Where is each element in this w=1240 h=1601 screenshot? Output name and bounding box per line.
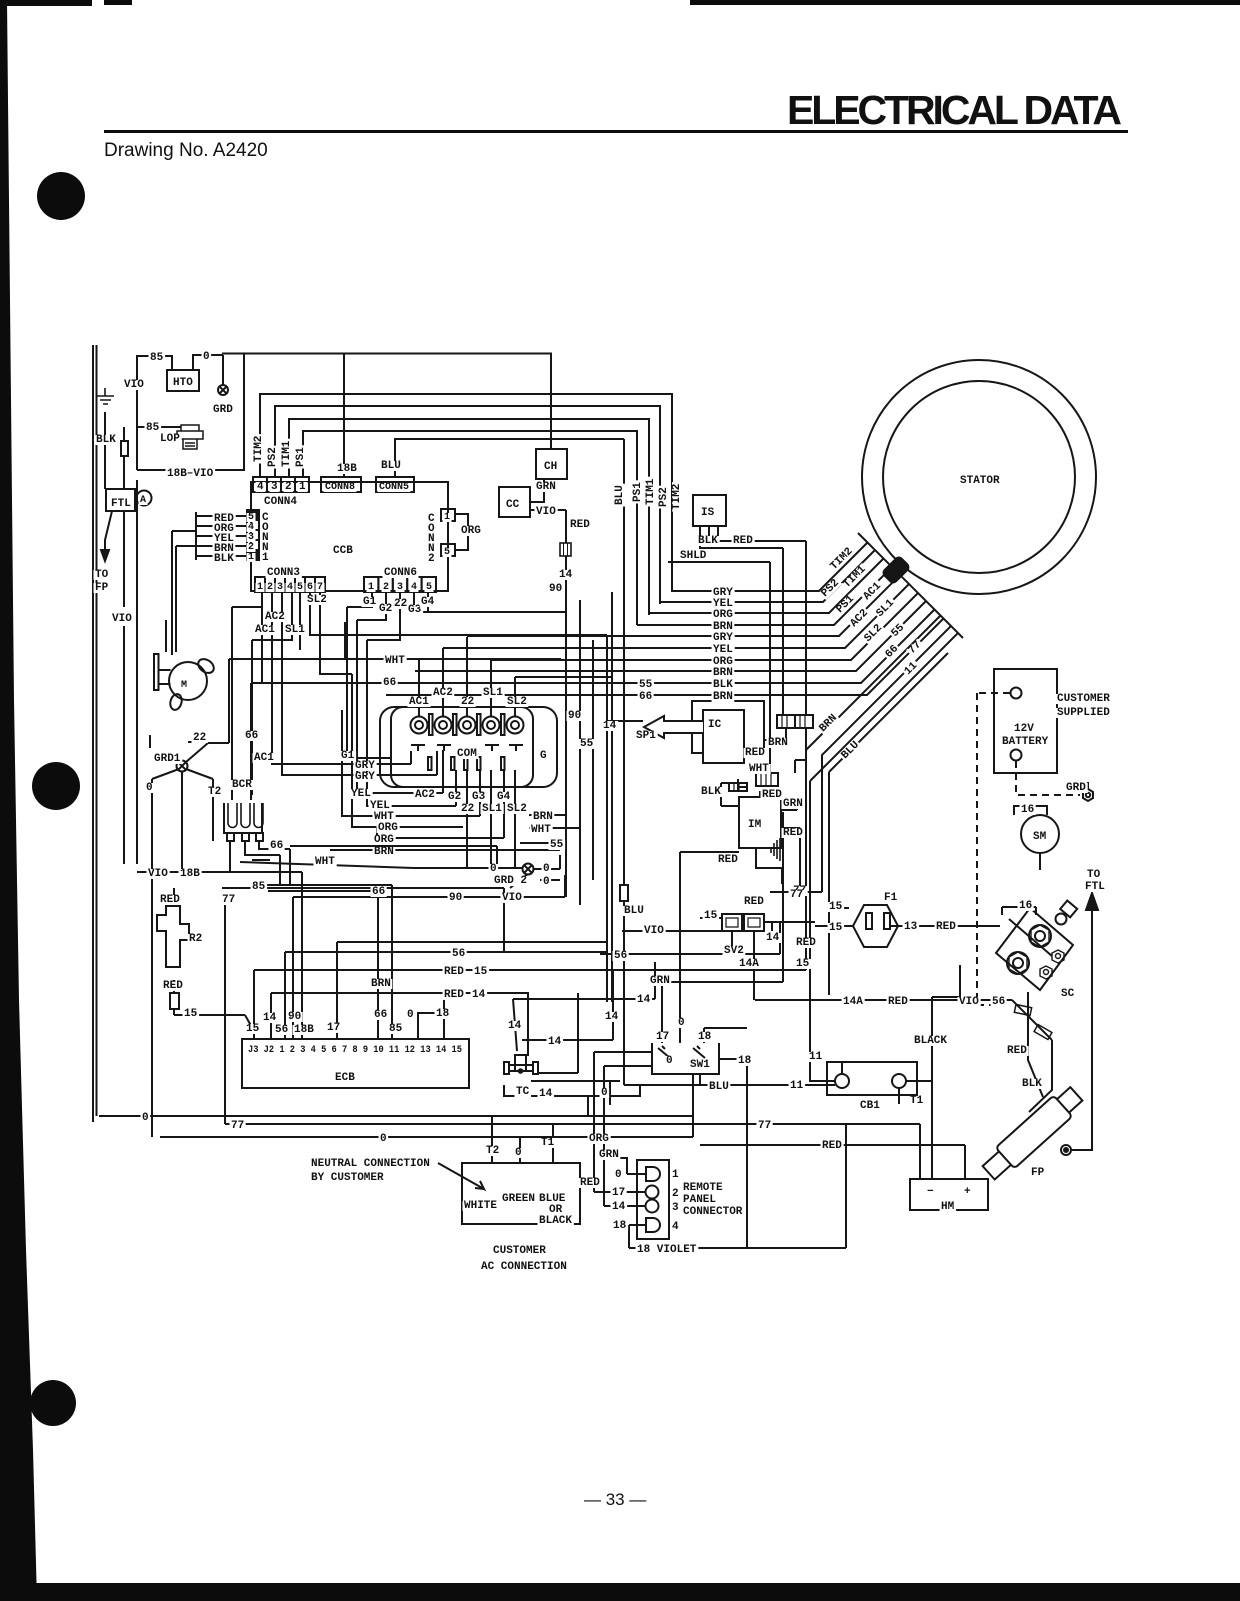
svg-text:GREEN: GREEN <box>502 1193 535 1205</box>
svg-text:5: 5 <box>297 582 303 593</box>
svg-text:3: 3 <box>277 582 283 593</box>
svg-text:16: 16 <box>1021 804 1034 816</box>
svg-text:SC: SC <box>1061 988 1075 1000</box>
svg-text:0: 0 <box>490 863 497 875</box>
svg-text:RED: RED <box>444 966 464 978</box>
svg-text:AC1: AC1 <box>255 624 275 636</box>
svg-text:TIM1: TIM1 <box>645 478 657 505</box>
svg-text:FP: FP <box>1031 1167 1045 1179</box>
svg-text:2: 2 <box>267 582 273 593</box>
svg-text:90: 90 <box>449 892 462 904</box>
svg-text:4: 4 <box>411 582 417 593</box>
svg-text:NEUTRAL CONNECTION: NEUTRAL CONNECTION <box>311 1158 430 1170</box>
svg-text:STATOR: STATOR <box>960 475 1000 487</box>
svg-text:VIO: VIO <box>148 868 168 880</box>
svg-text:22: 22 <box>461 696 474 708</box>
svg-text:1: 1 <box>257 582 263 593</box>
svg-text:14: 14 <box>548 1036 562 1048</box>
svg-text:CONN8: CONN8 <box>325 482 355 493</box>
svg-text:GRN: GRN <box>650 975 670 987</box>
svg-text:GRD 2: GRD 2 <box>494 875 527 887</box>
svg-text:+: + <box>964 1186 971 1198</box>
svg-text:AC1: AC1 <box>409 696 429 708</box>
svg-text:RED: RED <box>1007 1045 1027 1057</box>
svg-text:ORG: ORG <box>461 525 481 537</box>
svg-text:SL1: SL1 <box>483 687 503 699</box>
svg-text:TO: TO <box>1087 869 1101 881</box>
svg-text:GRD: GRD <box>213 404 233 416</box>
svg-text:0: 0 <box>666 1055 673 1067</box>
svg-text:FTL: FTL <box>1085 881 1105 893</box>
svg-text:7: 7 <box>317 582 323 593</box>
svg-text:RED: RED <box>160 894 180 906</box>
svg-text:0: 0 <box>678 1017 685 1029</box>
svg-text:SL2: SL2 <box>507 696 527 708</box>
svg-text:3: 3 <box>397 582 403 593</box>
svg-text:85: 85 <box>146 422 160 434</box>
svg-text:TIM2: TIM2 <box>671 484 683 510</box>
svg-text:77: 77 <box>758 1120 771 1132</box>
svg-text:PS1: PS1 <box>295 447 307 467</box>
svg-text:1: 1 <box>262 552 269 564</box>
svg-text:66: 66 <box>639 691 652 703</box>
svg-text:14: 14 <box>539 1088 553 1100</box>
svg-text:SP1: SP1 <box>636 730 656 742</box>
svg-text:BLACK: BLACK <box>914 1035 947 1047</box>
svg-text:56: 56 <box>614 950 627 962</box>
svg-text:−: − <box>927 1186 934 1198</box>
svg-text:SHLD: SHLD <box>680 550 707 562</box>
svg-text:RED: RED <box>888 996 908 1008</box>
svg-text:CONNECTOR: CONNECTOR <box>683 1206 743 1218</box>
svg-text:BLK: BLK <box>698 535 718 547</box>
svg-text:M: M <box>181 680 187 691</box>
svg-text:BLK: BLK <box>96 434 116 446</box>
svg-text:BLU: BLU <box>381 460 401 472</box>
svg-text:PS2: PS2 <box>658 487 670 507</box>
svg-text:4: 4 <box>257 481 264 493</box>
svg-text:14: 14 <box>559 569 573 581</box>
svg-text:RED: RED <box>580 1177 600 1189</box>
svg-text:18: 18 <box>698 1031 712 1043</box>
svg-text:CCB: CCB <box>333 545 353 557</box>
svg-text:18B: 18B <box>337 463 357 475</box>
svg-text:AC2: AC2 <box>265 611 285 623</box>
svg-text:RED: RED <box>822 1140 842 1152</box>
svg-text:SUPPLIED: SUPPLIED <box>1057 707 1110 719</box>
svg-text:WHT: WHT <box>315 856 335 868</box>
svg-text:11: 11 <box>902 660 920 678</box>
svg-text:BLU: BLU <box>709 1081 729 1093</box>
svg-text:ECB: ECB <box>335 1072 355 1084</box>
svg-text:85: 85 <box>252 881 266 893</box>
svg-text:BRN: BRN <box>371 978 391 990</box>
svg-text:GRN: GRN <box>536 481 556 493</box>
svg-text:77: 77 <box>790 889 803 901</box>
svg-text:GRD1: GRD1 <box>154 753 181 765</box>
svg-text:1: 1 <box>368 582 374 593</box>
svg-text:1: 1 <box>299 481 306 493</box>
svg-text:15: 15 <box>474 966 488 978</box>
svg-text:IC: IC <box>708 719 722 731</box>
svg-text:0: 0 <box>203 351 210 363</box>
svg-text:ORG: ORG <box>589 1133 609 1145</box>
svg-text:BLK: BLK <box>1022 1078 1042 1090</box>
svg-text:LOP: LOP <box>160 433 180 445</box>
svg-text:VIO: VIO <box>644 925 664 937</box>
svg-text:REMOTE: REMOTE <box>683 1182 723 1194</box>
svg-text:FTL: FTL <box>111 498 131 510</box>
svg-text:T2: T2 <box>486 1145 499 1157</box>
svg-text:RED: RED <box>744 896 764 908</box>
svg-text:66: 66 <box>270 840 283 852</box>
svg-text:TC: TC <box>516 1086 530 1098</box>
svg-text:G4: G4 <box>497 791 511 803</box>
svg-text:BRN: BRN <box>533 811 553 823</box>
svg-text:TIM2: TIM2 <box>253 436 265 462</box>
svg-text:13: 13 <box>904 921 918 933</box>
svg-text:YEL: YEL <box>351 788 371 800</box>
svg-text:22: 22 <box>461 803 474 815</box>
svg-text:T1: T1 <box>910 1095 924 1107</box>
svg-text:14A: 14A <box>843 996 863 1008</box>
svg-text:17: 17 <box>656 1031 669 1043</box>
svg-text:RED: RED <box>796 937 816 949</box>
svg-text:56: 56 <box>992 996 1005 1008</box>
svg-text:5: 5 <box>444 547 450 558</box>
svg-text:0: 0 <box>543 876 550 888</box>
svg-text:55: 55 <box>639 679 653 691</box>
svg-text:GRY: GRY <box>355 771 375 783</box>
svg-text:BRN: BRN <box>713 667 733 679</box>
svg-text:14: 14 <box>637 994 651 1006</box>
svg-text:SL1: SL1 <box>482 803 502 815</box>
svg-text:1: 1 <box>672 1169 679 1181</box>
svg-text:BLACK: BLACK <box>539 1215 572 1227</box>
svg-text:56: 56 <box>452 948 465 960</box>
svg-text:56: 56 <box>275 1024 288 1036</box>
svg-text:BLK: BLK <box>701 786 721 798</box>
svg-text:1: 1 <box>248 552 254 563</box>
svg-text:GRY: GRY <box>713 632 733 644</box>
svg-text:0: 0 <box>543 863 550 875</box>
svg-text:ORG: ORG <box>378 822 398 834</box>
svg-text:BLK: BLK <box>713 679 733 691</box>
svg-text:14: 14 <box>263 1012 277 1024</box>
svg-text:WHT: WHT <box>531 824 551 836</box>
svg-text:IS: IS <box>701 507 715 519</box>
svg-text:1: 1 <box>444 512 450 523</box>
svg-text:BLK: BLK <box>214 553 234 565</box>
svg-text:G4: G4 <box>421 596 435 608</box>
svg-text:77: 77 <box>231 1120 244 1132</box>
svg-text:PS1: PS1 <box>632 482 644 502</box>
svg-text:BRN: BRN <box>768 737 788 749</box>
svg-text:15: 15 <box>829 922 843 934</box>
svg-text:18 VIOLET: 18 VIOLET <box>637 1244 697 1256</box>
svg-text:14: 14 <box>603 720 617 732</box>
svg-text:AC1: AC1 <box>254 752 274 764</box>
svg-text:— 33 —: — 33 — <box>584 1490 646 1509</box>
svg-text:22: 22 <box>193 732 206 744</box>
svg-text:AC2: AC2 <box>415 789 435 801</box>
svg-text:90: 90 <box>549 583 562 595</box>
svg-text:18B–VIO: 18B–VIO <box>167 468 214 480</box>
svg-text:2: 2 <box>383 582 389 593</box>
svg-text:0: 0 <box>146 782 153 794</box>
svg-text:2: 2 <box>672 1188 679 1200</box>
svg-text:0: 0 <box>142 1112 149 1124</box>
svg-text:HM: HM <box>941 1201 955 1213</box>
svg-text:11: 11 <box>790 1080 804 1092</box>
svg-text:YEL: YEL <box>713 644 733 656</box>
svg-text:15: 15 <box>796 958 810 970</box>
svg-text:15: 15 <box>184 1008 198 1020</box>
svg-text:SV2: SV2 <box>724 945 744 957</box>
svg-text:14: 14 <box>766 932 780 944</box>
svg-text:AC CONNECTION: AC CONNECTION <box>481 1261 567 1273</box>
svg-text:TO: TO <box>95 569 109 581</box>
svg-text:SL1: SL1 <box>285 624 305 636</box>
svg-text:SW1: SW1 <box>690 1059 710 1071</box>
svg-text:14: 14 <box>508 1020 522 1032</box>
svg-text:A: A <box>140 495 146 506</box>
svg-text:2: 2 <box>428 553 435 565</box>
svg-text:77: 77 <box>222 894 235 906</box>
svg-text:RED: RED <box>163 980 183 992</box>
svg-text:CONN6: CONN6 <box>384 567 417 579</box>
svg-text:RED: RED <box>570 519 590 531</box>
svg-text:85: 85 <box>150 352 164 364</box>
svg-text:CUSTOMER: CUSTOMER <box>493 1245 546 1257</box>
svg-text:G1: G1 <box>341 750 355 762</box>
svg-text:BATTERY: BATTERY <box>1002 736 1049 748</box>
svg-text:RED: RED <box>745 747 765 759</box>
svg-text:14: 14 <box>605 1011 619 1023</box>
svg-text:15: 15 <box>246 1023 260 1035</box>
svg-text:66: 66 <box>383 677 396 689</box>
svg-text:18: 18 <box>436 1008 450 1020</box>
svg-text:VIO: VIO <box>536 506 556 518</box>
svg-text:BRN: BRN <box>713 691 733 703</box>
svg-text:15: 15 <box>829 901 843 913</box>
svg-text:22: 22 <box>394 598 407 610</box>
svg-text:SL2: SL2 <box>307 594 327 606</box>
svg-text:BLU: BLU <box>614 485 626 505</box>
svg-text:PANEL: PANEL <box>683 1194 716 1206</box>
svg-text:ORG: ORG <box>374 834 394 846</box>
svg-text:4: 4 <box>672 1221 679 1233</box>
svg-text:VIO: VIO <box>959 996 979 1008</box>
svg-text:VIO: VIO <box>124 379 144 391</box>
svg-text:55: 55 <box>889 622 907 640</box>
svg-text:SL2: SL2 <box>507 803 527 815</box>
svg-text:VIO: VIO <box>502 892 522 904</box>
svg-text:0: 0 <box>601 1087 608 1099</box>
svg-text:66: 66 <box>372 886 385 898</box>
svg-text:J3 J2 1 2 3 4 5 6 7 8 9 10 11: J3 J2 1 2 3 4 5 6 7 8 9 10 11 12 13 14 1… <box>248 1044 462 1056</box>
svg-text:18: 18 <box>613 1220 627 1232</box>
svg-text:85: 85 <box>389 1023 403 1035</box>
svg-text:CONN4: CONN4 <box>264 496 297 508</box>
svg-text:T1: T1 <box>541 1137 555 1149</box>
svg-text:90: 90 <box>288 1011 301 1023</box>
svg-text:COM: COM <box>457 748 477 760</box>
svg-text:2: 2 <box>285 481 292 493</box>
svg-text:F1: F1 <box>884 892 898 904</box>
svg-text:VIO: VIO <box>112 613 132 625</box>
svg-text:14: 14 <box>472 989 486 1001</box>
svg-text:BCR: BCR <box>232 779 252 791</box>
svg-text:4: 4 <box>287 582 293 593</box>
svg-text:G2: G2 <box>379 603 392 615</box>
svg-text:WHITE: WHITE <box>464 1200 497 1212</box>
svg-text:18B: 18B <box>294 1024 314 1036</box>
svg-text:CONN5: CONN5 <box>379 482 409 493</box>
svg-text:66: 66 <box>374 1009 387 1021</box>
svg-text:TIM1: TIM1 <box>281 440 293 467</box>
svg-text:18: 18 <box>738 1055 752 1067</box>
svg-text:RED: RED <box>444 989 464 1001</box>
svg-text:ELECTRICAL DATA: ELECTRICAL DATA <box>787 87 1122 133</box>
svg-text:CONN3: CONN3 <box>267 567 300 579</box>
svg-text:17: 17 <box>612 1187 625 1199</box>
svg-text:5: 5 <box>426 582 432 593</box>
svg-text:FP: FP <box>95 582 109 594</box>
svg-text:17: 17 <box>327 1022 340 1034</box>
svg-text:GRN: GRN <box>599 1149 619 1161</box>
svg-text:55: 55 <box>550 839 564 851</box>
svg-text:RED: RED <box>718 854 738 866</box>
svg-text:14: 14 <box>612 1201 626 1213</box>
svg-text:G1: G1 <box>363 596 377 608</box>
svg-text:0: 0 <box>515 1147 522 1159</box>
svg-text:ORG: ORG <box>713 609 733 621</box>
svg-text:GRD: GRD <box>1066 782 1086 794</box>
svg-text:0: 0 <box>407 1009 414 1021</box>
svg-text:11: 11 <box>809 1051 823 1063</box>
svg-text:CB1: CB1 <box>860 1100 880 1112</box>
svg-text:GRN: GRN <box>783 798 803 810</box>
svg-text:55: 55 <box>580 738 594 750</box>
svg-text:IM: IM <box>748 819 762 831</box>
svg-text:RED: RED <box>936 921 956 933</box>
svg-text:16: 16 <box>1019 900 1032 912</box>
svg-text:15: 15 <box>704 910 718 922</box>
svg-text:WHT: WHT <box>749 763 769 775</box>
svg-text:12V: 12V <box>1014 723 1034 735</box>
svg-text:CC: CC <box>506 499 520 511</box>
svg-text:66: 66 <box>245 730 258 742</box>
svg-text:BY CUSTOMER: BY CUSTOMER <box>311 1172 384 1184</box>
svg-text:0: 0 <box>615 1169 622 1181</box>
svg-text:R2: R2 <box>189 933 202 945</box>
svg-text:HTO: HTO <box>173 377 193 389</box>
svg-text:RED: RED <box>783 827 803 839</box>
svg-text:CH: CH <box>544 461 557 473</box>
svg-text:RED: RED <box>733 535 753 547</box>
svg-text:0: 0 <box>380 1133 387 1145</box>
svg-text:WHT: WHT <box>385 655 405 667</box>
svg-text:BRN: BRN <box>374 846 394 858</box>
svg-text:G3: G3 <box>472 791 486 803</box>
svg-text:G: G <box>540 750 547 762</box>
svg-text:T2: T2 <box>208 786 221 798</box>
svg-text:CUSTOMER: CUSTOMER <box>1057 693 1110 705</box>
svg-text:SM: SM <box>1033 831 1047 843</box>
svg-text:AC2: AC2 <box>433 687 453 699</box>
svg-text:RED: RED <box>762 789 782 801</box>
svg-text:BLU: BLU <box>624 905 644 917</box>
svg-text:90: 90 <box>568 710 581 722</box>
svg-text:G2: G2 <box>448 791 461 803</box>
svg-text:Drawing No. A2420: Drawing No. A2420 <box>104 140 268 161</box>
svg-text:PS2: PS2 <box>267 447 279 467</box>
svg-text:14A: 14A <box>739 958 759 970</box>
svg-text:18B: 18B <box>180 868 200 880</box>
svg-text:6: 6 <box>307 582 313 593</box>
svg-text:3: 3 <box>672 1202 679 1214</box>
svg-text:3: 3 <box>271 481 278 493</box>
